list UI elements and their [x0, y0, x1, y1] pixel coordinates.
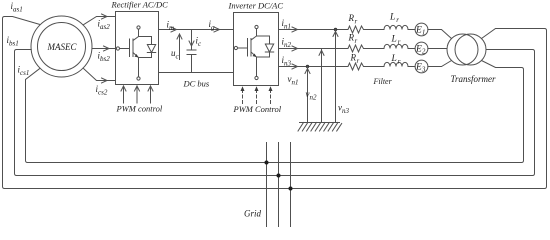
- rectifier IGBT bottom rail: [139, 57, 152, 59]
- inverter box: [234, 13, 279, 86]
- transformer secondary winding: [455, 34, 486, 65]
- inverter IGBT bottom rail: [257, 56, 270, 58]
- inductor L3: [384, 62, 408, 66]
- rectifier IGBT top terminal: [137, 26, 140, 29]
- svg-text:DC bus: DC bus: [183, 79, 210, 89]
- svg-text:MASEC: MASEC: [47, 42, 78, 52]
- wire i_as2 MASEC to rectifier: [83, 17, 115, 25]
- svg-text:im: im: [167, 20, 175, 33]
- inverter IGBT top terminal: [255, 25, 258, 28]
- svg-text:in2: in2: [282, 37, 292, 50]
- inverter IGBT collector lead: [251, 29, 257, 40]
- svg-text:uc: uc: [171, 48, 180, 61]
- junction grid phase a: [289, 187, 293, 191]
- wire E3 to transformer: [428, 61, 452, 67]
- rectifier IGBT top rail: [139, 36, 152, 38]
- PWM Control dashed arrow 2 (inverter): [256, 90, 258, 104]
- arrow u_c up: [177, 34, 182, 60]
- wire i_cs1 from MASEC to left bus: [26, 68, 41, 162]
- svg-text:vn1: vn1: [288, 74, 299, 87]
- rectifier box: [116, 12, 159, 85]
- rectifier IGBT collector lead: [133, 29, 139, 40]
- arrow i_as2: [102, 14, 108, 19]
- rectifier IGBT body bar: [132, 39, 134, 57]
- wire E1 to transformer: [428, 30, 452, 39]
- arrow i_cs2: [102, 78, 108, 83]
- node tap phase1: [334, 28, 337, 31]
- svg-text:vn3: vn3: [338, 103, 350, 116]
- rectifier IGBT bottom terminal: [137, 77, 140, 80]
- wire E2 to transformer: [428, 48, 447, 50]
- arrow i_n1: [292, 27, 298, 32]
- arrow i_m: [171, 27, 177, 32]
- arrow i_bs2: [104, 46, 110, 51]
- svg-text:Lr: Lr: [391, 35, 401, 47]
- measurement line v_n2: [319, 49, 324, 123]
- rectifier IGBT emitter with arrow: [133, 53, 139, 58]
- capacitor C plates: [187, 50, 196, 55]
- svg-text:Rr: Rr: [348, 13, 358, 26]
- arrow i_c down: [189, 33, 194, 47]
- PWM Control dashed arrow 3 (inverter): [270, 90, 272, 104]
- resistor R1: [346, 26, 366, 33]
- wire transformer middle output to right bus: [486, 50, 535, 176]
- rectifier IGBT emitter lead down: [138, 58, 140, 77]
- wire i_bs1 from MASEC to left bus: [15, 50, 32, 176]
- wire i_as1 from MASEC to left bus: [3, 17, 41, 189]
- rectifier diode D1: [147, 37, 155, 58]
- ground hatching: [298, 123, 342, 132]
- grid line 3: [290, 143, 292, 227]
- svg-text:Transformer: Transformer: [451, 74, 497, 84]
- measurement line v_n3: [333, 30, 338, 123]
- arrow i_n3: [292, 64, 298, 69]
- grid line 2: [278, 143, 280, 227]
- svg-text:ic: ic: [196, 36, 203, 49]
- svg-text:Rectifier AC/DC: Rectifier AC/DC: [111, 0, 169, 10]
- PWM control arrow 3 (rectifier): [148, 86, 153, 103]
- resistor R2: [346, 45, 366, 52]
- svg-text:Lr: Lr: [391, 54, 401, 66]
- machine MASEC outer circle: [31, 16, 92, 77]
- inverter IGBT emitter with arrow: [251, 52, 257, 57]
- PWM control arrow 2 (rectifier): [135, 86, 140, 103]
- rectifier IGBT gate bar: [129, 39, 131, 57]
- inductor L1: [384, 25, 408, 29]
- wire L2 to E2: [408, 48, 415, 50]
- wire phase 1 inverter to filter: [279, 29, 346, 31]
- inverter IGBT gate bar: [247, 39, 249, 57]
- junction grid phase b: [277, 174, 281, 178]
- wire L1 to E1: [408, 29, 415, 31]
- DC bus bottom wire: [159, 72, 234, 74]
- svg-text:E3: E3: [415, 63, 426, 74]
- junction grid phase c: [265, 161, 269, 165]
- rectifier IGBT gate terminal: [116, 47, 119, 50]
- svg-text:ias1: ias1: [11, 1, 23, 14]
- wire R3 to L3: [366, 66, 385, 68]
- wire i_cs2 MASEC to rectifier: [83, 68, 115, 80]
- DC bus top wire: [159, 29, 234, 31]
- svg-text:Rr: Rr: [348, 33, 358, 46]
- inverter IGBT bottom terminal: [255, 76, 258, 79]
- inverter IGBT body bar: [250, 39, 252, 57]
- wire phase 2 inverter to filter: [279, 48, 346, 50]
- svg-text:ics2: ics2: [96, 84, 108, 97]
- svg-text:PWM Control: PWM Control: [233, 104, 282, 114]
- inverter IGBT gate terminal: [234, 46, 237, 49]
- arrow i_g: [214, 27, 220, 32]
- svg-text:PWM control: PWM control: [116, 104, 163, 114]
- wire transformer bottom output to right bus: [482, 61, 524, 163]
- inverter IGBT emitter lead down: [256, 57, 258, 76]
- machine MASEC inner circle: [38, 23, 86, 71]
- svg-text:ibs2: ibs2: [98, 51, 111, 64]
- rectifier IGBT gate lead: [120, 48, 130, 50]
- svg-text:E2: E2: [415, 45, 426, 56]
- capacitor C branch lower: [191, 55, 193, 73]
- wire phase 3 inverter to filter: [279, 66, 346, 68]
- node tap phase3: [306, 65, 309, 68]
- measurement line v_n1: [305, 67, 310, 123]
- capacitor C branch upper: [191, 30, 193, 51]
- svg-text:Inverter DC/AC: Inverter DC/AC: [228, 1, 284, 11]
- PWM control arrow 1 (rectifier): [121, 86, 126, 103]
- resistor R3: [346, 63, 366, 70]
- wire R2 to L2: [366, 48, 385, 50]
- svg-text:in1: in1: [282, 18, 292, 31]
- wire L3 to E3: [408, 66, 415, 68]
- grid line 1: [266, 143, 268, 227]
- svg-text:ias2: ias2: [98, 19, 111, 32]
- ground bar: [300, 122, 340, 124]
- inverter IGBT gate lead: [238, 47, 248, 49]
- PWM Control dashed arrow 1 (inverter): [242, 90, 244, 104]
- svg-text:in3: in3: [282, 55, 292, 68]
- svg-text:Filter: Filter: [373, 77, 393, 86]
- svg-text:Grid: Grid: [244, 209, 262, 219]
- wire transformer top output to right bus: [482, 29, 547, 189]
- source E3: [415, 60, 428, 73]
- bus wire phase a bottom: [5, 188, 545, 190]
- bus wire phase b bottom: [17, 175, 533, 177]
- svg-text:ibs1: ibs1: [7, 35, 19, 48]
- source E1: [415, 23, 428, 36]
- bus wire phase c bottom: [28, 162, 522, 164]
- wire i_bs2 MASEC to rectifier: [92, 48, 116, 50]
- inverter diode D2: [265, 36, 273, 57]
- svg-text:Lr: Lr: [389, 13, 399, 25]
- svg-text:ics1: ics1: [18, 65, 30, 78]
- wire R1 to L1: [366, 29, 385, 31]
- arrow i_n2: [292, 46, 298, 51]
- inductor L2: [384, 44, 408, 48]
- inverter IGBT top rail: [257, 35, 270, 37]
- transformer primary winding: [447, 34, 478, 65]
- svg-text:Rr: Rr: [350, 53, 360, 66]
- source E2: [415, 42, 428, 55]
- svg-text:E1: E1: [415, 26, 425, 37]
